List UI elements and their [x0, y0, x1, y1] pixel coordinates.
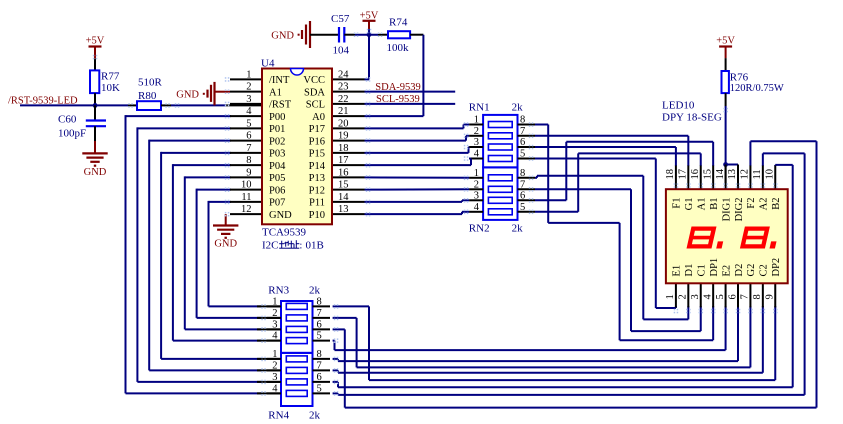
svg-text:2: 2: [272, 360, 277, 371]
svg-text:C1: C1: [697, 264, 708, 276]
svg-text:4: 4: [272, 331, 278, 342]
svg-text:5: 5: [317, 331, 322, 342]
svg-text:16: 16: [338, 167, 349, 178]
svg-text:18: 18: [338, 143, 349, 154]
svg-text:5: 5: [246, 118, 251, 129]
svg-text:3: 3: [246, 94, 251, 105]
svg-text:2: 2: [474, 126, 479, 137]
svg-text:U4: U4: [261, 58, 275, 70]
svg-text:6: 6: [520, 137, 525, 148]
svg-text:15: 15: [702, 169, 713, 180]
svg-text:P17: P17: [309, 124, 325, 135]
svg-text:C2: C2: [759, 264, 770, 276]
svg-text:3: 3: [474, 190, 479, 201]
svg-text:7: 7: [520, 126, 525, 137]
svg-text:7: 7: [246, 143, 251, 154]
svg-text:P07: P07: [269, 198, 285, 209]
svg-text:9: 9: [246, 167, 251, 178]
svg-text:21: 21: [338, 106, 349, 117]
svg-text:3: 3: [272, 319, 277, 330]
svg-text:1: 1: [272, 296, 277, 307]
svg-text:1: 1: [665, 294, 676, 299]
svg-text:10: 10: [764, 169, 775, 180]
svg-text:P05: P05: [269, 173, 285, 184]
svg-text:E1: E1: [672, 265, 683, 277]
svg-text:GND: GND: [84, 167, 107, 178]
svg-text:2: 2: [272, 308, 277, 319]
svg-text:17: 17: [678, 169, 689, 180]
svg-text:13: 13: [338, 204, 349, 215]
svg-text:DP2: DP2: [771, 258, 782, 277]
svg-text:17: 17: [338, 155, 349, 166]
svg-text:7: 7: [317, 360, 322, 371]
svg-text:C60: C60: [58, 114, 77, 126]
svg-text:10: 10: [241, 180, 252, 191]
svg-text:24: 24: [338, 69, 349, 80]
svg-text:A2: A2: [759, 198, 770, 211]
svg-text:9: 9: [765, 294, 776, 299]
svg-text:12: 12: [740, 169, 751, 180]
svg-text:VCC: VCC: [303, 75, 325, 86]
svg-text:GND: GND: [269, 210, 292, 221]
svg-text:2k: 2k: [309, 285, 321, 297]
svg-text:G2: G2: [746, 264, 757, 277]
svg-text:RN2: RN2: [469, 222, 490, 234]
svg-text:15: 15: [338, 180, 349, 191]
svg-text:11: 11: [752, 169, 763, 179]
svg-text:2: 2: [678, 294, 689, 299]
svg-text:G1: G1: [684, 198, 695, 211]
svg-text:19: 19: [338, 131, 349, 142]
svg-text:SCL: SCL: [306, 100, 325, 111]
svg-text:20: 20: [338, 118, 349, 129]
svg-text:RN3: RN3: [268, 285, 289, 297]
svg-text:8: 8: [520, 168, 525, 179]
svg-text:100pF: 100pF: [58, 128, 86, 140]
svg-text:4: 4: [702, 294, 713, 300]
svg-text:2: 2: [474, 179, 479, 190]
svg-text:7: 7: [740, 294, 751, 299]
svg-text:GND: GND: [176, 89, 199, 100]
svg-text:P11: P11: [309, 198, 325, 209]
svg-text:SCL-9539: SCL-9539: [376, 94, 420, 105]
svg-text:P12: P12: [309, 185, 325, 196]
svg-text:5: 5: [317, 383, 322, 394]
svg-text:RN1: RN1: [469, 101, 490, 113]
svg-text:13: 13: [727, 169, 738, 180]
svg-text:23: 23: [338, 82, 349, 93]
svg-text:100k: 100k: [387, 42, 410, 54]
svg-text:DPY 18-SEG: DPY 18-SEG: [662, 112, 722, 124]
svg-text:+5V: +5V: [86, 35, 105, 46]
svg-text:P04: P04: [269, 161, 286, 172]
svg-text:B2: B2: [771, 198, 782, 210]
svg-text:SDA-9539: SDA-9539: [375, 82, 421, 93]
svg-text:8: 8: [317, 296, 322, 307]
svg-text:10K: 10K: [101, 82, 120, 94]
svg-text:D1: D1: [684, 264, 695, 277]
svg-text:5: 5: [520, 149, 525, 160]
svg-text:P00: P00: [269, 112, 285, 123]
svg-text:2k: 2k: [512, 101, 523, 113]
svg-text:/INT: /INT: [269, 75, 290, 86]
svg-text:P10: P10: [309, 210, 325, 221]
svg-text:P14: P14: [309, 161, 326, 172]
svg-text:R74: R74: [389, 17, 408, 29]
svg-text:RN4: RN4: [268, 410, 289, 422]
svg-text:/RST: /RST: [269, 100, 292, 111]
svg-text:F2: F2: [746, 198, 757, 209]
svg-text:R77: R77: [101, 71, 120, 83]
svg-text:P01: P01: [269, 124, 285, 135]
svg-text:6: 6: [727, 294, 738, 299]
svg-text:7: 7: [317, 308, 322, 319]
svg-text:5: 5: [715, 294, 726, 299]
svg-text:12: 12: [241, 204, 252, 215]
svg-text:A0: A0: [312, 112, 325, 123]
svg-text:1: 1: [474, 168, 479, 179]
svg-text:8: 8: [752, 294, 763, 299]
svg-text:D2: D2: [734, 264, 745, 277]
svg-text:+5V: +5V: [716, 36, 735, 47]
svg-text:1: 1: [474, 115, 479, 126]
svg-text:104: 104: [333, 44, 350, 56]
svg-text:22: 22: [338, 94, 349, 105]
svg-text:8: 8: [520, 115, 525, 126]
svg-text:8: 8: [246, 155, 251, 166]
svg-text:2k: 2k: [512, 222, 523, 234]
svg-text:18: 18: [665, 169, 676, 180]
svg-text:510R: 510R: [138, 76, 163, 88]
svg-text:2k: 2k: [309, 410, 321, 422]
svg-text:R80: R80: [138, 90, 157, 102]
svg-text:6: 6: [520, 190, 525, 201]
svg-text:120R/0.75W: 120R/0.75W: [730, 83, 784, 94]
svg-text:/RST-9539-LED: /RST-9539-LED: [8, 95, 78, 106]
svg-text:3: 3: [690, 294, 701, 299]
svg-text:C57: C57: [331, 13, 350, 25]
svg-text:16: 16: [690, 169, 701, 180]
svg-text:B1: B1: [709, 198, 720, 210]
svg-text::: :: [300, 241, 303, 252]
svg-text:3: 3: [272, 372, 277, 383]
svg-text:I2C: I2C: [262, 240, 279, 252]
svg-text:11: 11: [241, 192, 251, 203]
svg-text:14: 14: [715, 168, 726, 179]
svg-text:4: 4: [246, 106, 252, 117]
svg-text:P06: P06: [269, 185, 285, 196]
svg-text:P02: P02: [269, 136, 285, 147]
svg-text:14: 14: [338, 192, 349, 203]
svg-text:1: 1: [272, 349, 277, 360]
svg-text:A1: A1: [697, 198, 708, 211]
svg-text:A1: A1: [269, 87, 282, 98]
svg-text:SDA: SDA: [304, 87, 325, 98]
svg-text:1: 1: [246, 69, 251, 80]
svg-text:8: 8: [317, 349, 322, 360]
svg-text:2: 2: [246, 82, 251, 93]
svg-text:4: 4: [272, 383, 278, 394]
svg-text:GND: GND: [271, 31, 294, 42]
svg-text:P13: P13: [309, 173, 325, 184]
svg-text:P15: P15: [309, 149, 325, 160]
svg-text:DP1: DP1: [709, 258, 720, 277]
svg-text:5: 5: [520, 202, 525, 213]
svg-text:DIG2: DIG2: [734, 198, 745, 222]
svg-text:P03: P03: [269, 149, 285, 160]
svg-text:4: 4: [474, 202, 480, 213]
svg-text:TCA9539: TCA9539: [262, 227, 307, 239]
svg-text:3: 3: [474, 137, 479, 148]
svg-text:LED10: LED10: [662, 100, 695, 112]
svg-text:DIG1: DIG1: [721, 198, 732, 222]
svg-text:6: 6: [317, 372, 322, 383]
svg-text:6: 6: [246, 131, 251, 142]
svg-text:F1: F1: [672, 198, 683, 209]
svg-text:E2: E2: [721, 265, 732, 277]
svg-text:6: 6: [317, 319, 322, 330]
svg-text:R76: R76: [730, 72, 749, 84]
svg-text:01B: 01B: [306, 240, 324, 252]
svg-text:7: 7: [520, 179, 525, 190]
svg-text:4: 4: [474, 149, 480, 160]
svg-text:P16: P16: [309, 136, 325, 147]
svg-text:GND: GND: [214, 239, 237, 250]
